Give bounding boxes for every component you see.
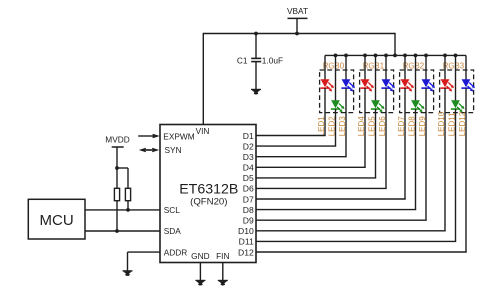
wire LED bus to LED6 anode [385, 55, 387, 80]
pull-up resistor on SDA [114, 188, 119, 200]
svg-text:LED8: LED8 [407, 116, 416, 137]
svg-text:LED7: LED7 [397, 116, 406, 137]
svg-text:SDA: SDA [164, 226, 182, 236]
wire LED4 to pin D4 [256, 166, 366, 168]
wire SCL MCU to IC [85, 209, 160, 211]
svg-text:EXPWM: EXPWM [163, 131, 194, 141]
svg-text:LED11: LED11 [447, 112, 456, 136]
MCU block [28, 199, 85, 239]
wire GND pin down [199, 263, 201, 281]
svg-text:RGB2: RGB2 [403, 61, 424, 70]
svg-text:RGB1: RGB1 [363, 61, 384, 70]
wire left resistor to SDA [116, 201, 118, 231]
svg-text:C1: C1 [237, 56, 248, 66]
pull-up resistor on SCL [125, 188, 130, 200]
svg-text:D5: D5 [243, 173, 254, 183]
power symbol MVDD [105, 134, 129, 147]
svg-text:SYN: SYN [165, 145, 182, 155]
junction LED bus / LED9 wire [424, 54, 428, 58]
LED2 green [331, 100, 345, 112]
wire LED anode bus [325, 54, 466, 56]
LED8 green [411, 100, 425, 112]
wire LED5 cathode down to D5 row [375, 109, 377, 178]
LED7 red [400, 79, 414, 91]
wire LED bus to LED9 anode [425, 55, 427, 80]
wire LED bus to LED12 anode [465, 55, 467, 80]
svg-text:D3: D3 [243, 152, 254, 162]
ground under ADDR [123, 271, 133, 276]
svg-text:D1: D1 [243, 131, 254, 141]
ground under GND pin [195, 280, 205, 285]
wire bus down to LED bus [394, 33, 396, 56]
wire LED bus to LED2 anode [335, 55, 337, 101]
wire LED9 cathode down to D9 row [425, 88, 427, 220]
junction LED bus / LED6 wire [384, 54, 388, 58]
svg-text:RGB0: RGB0 [323, 61, 345, 70]
svg-text:GND: GND [191, 251, 209, 261]
svg-text:D10: D10 [238, 226, 254, 236]
wire LED bus to LED4 anode [364, 55, 366, 80]
wire LED3 to pin D3 [256, 156, 347, 158]
svg-text:D7: D7 [243, 194, 254, 204]
wire LED11 to pin D11 [256, 240, 456, 242]
junction resistor-SCL [126, 208, 130, 212]
svg-text:D8: D8 [243, 205, 254, 215]
LED5 green [371, 100, 385, 112]
LED11 green [451, 100, 465, 112]
svg-text:D4: D4 [243, 163, 254, 173]
ground under FIN pin [218, 280, 228, 285]
wire bus to VIN [202, 33, 204, 125]
wire LED bus to LED5 anode [375, 55, 377, 101]
wire ADDR to ground [128, 252, 161, 271]
svg-text:FIN: FIN [216, 251, 229, 261]
wire LED12 to pin D12 [256, 251, 467, 253]
wire LED10 cathode down to D10 row [444, 88, 446, 231]
RGB LED module RGB3 dashed box [440, 70, 474, 113]
svg-text:D9: D9 [243, 216, 254, 226]
svg-text:MVDD: MVDD [105, 134, 129, 144]
junction LED bus / LED10 wire [443, 54, 447, 58]
wire LED1 to pin D1 [256, 135, 326, 137]
junction C1-bus [254, 32, 258, 36]
RGB LED module RGB0 dashed box [320, 70, 354, 113]
wire LED6 cathode down to D6 row [385, 88, 387, 188]
wire LED4 cathode down to D4 row [364, 88, 366, 167]
svg-text:SCL: SCL [164, 205, 181, 215]
wire LED9 to pin D9 [256, 219, 427, 221]
svg-text:D2: D2 [243, 141, 254, 151]
svg-text:(QFN20): (QFN20) [190, 197, 227, 208]
wire LED7 cathode down to D7 row [404, 88, 406, 199]
wire LED8 cathode down to D8 row [415, 109, 417, 210]
LED3 blue [341, 79, 355, 91]
junction LED bus / LED2 wire [334, 54, 338, 58]
wire bus to C1 [255, 34, 257, 59]
junction VBAT-bus [295, 32, 299, 36]
wire LED bus to LED11 anode [455, 55, 457, 101]
svg-text:VBAT: VBAT [287, 6, 308, 16]
capacitor C1 value 1.0uF [237, 56, 283, 66]
signal arrow into EXPWM [138, 134, 160, 139]
junction feed-LED bus [393, 54, 397, 58]
wire LED3 cathode down to D3 row [345, 88, 347, 157]
power symbol VBAT [287, 6, 308, 18]
wire LED5 to pin D5 [256, 177, 376, 179]
LED9 blue [421, 79, 435, 91]
ground under C1 [251, 89, 261, 94]
svg-text:ADDR: ADDR [164, 247, 188, 257]
wire LED bus to LED7 anode [404, 55, 406, 80]
svg-text:D11: D11 [239, 237, 254, 247]
LED6 blue [381, 79, 395, 91]
wire FIN pin down [222, 263, 224, 281]
wire MVDD down [116, 147, 118, 188]
wire SDA MCU to IC [85, 230, 160, 232]
svg-text:MCU: MCU [40, 212, 74, 229]
wire LED6 to pin D6 [256, 187, 387, 189]
IC U1 ET6312B body [160, 125, 256, 263]
wire LED1 cathode down to D1 row [324, 88, 326, 135]
bidirectional arrow SYN [139, 148, 159, 153]
LED1 red [320, 79, 334, 91]
junction LED bus / LED11 wire [454, 54, 458, 58]
wire branch to right resistor [117, 168, 128, 188]
wire LED bus to LED3 anode [345, 55, 347, 80]
wire C1 to ground [255, 62, 257, 90]
RGB LED module RGB1 dashed box [360, 70, 394, 113]
wire LED bus to LED1 anode [324, 55, 326, 80]
svg-text:LED3: LED3 [338, 116, 347, 137]
wire LED8 to pin D8 [256, 209, 416, 211]
junction resistor-SDA [115, 229, 119, 233]
wire right resistor to SCL [127, 201, 129, 210]
wire LED12 cathode down to D12 row [465, 88, 467, 252]
junction LED bus / LED5 wire [374, 54, 378, 58]
wire LED2 to pin D2 [256, 145, 336, 147]
svg-text:ET6312B: ET6312B [179, 181, 238, 197]
LED4 red [360, 79, 374, 91]
svg-text:1.0uF: 1.0uF [262, 56, 283, 66]
junction LED bus / LED4 wire [363, 54, 367, 58]
svg-text:LED6: LED6 [378, 116, 387, 137]
LED10 red [440, 79, 454, 91]
svg-text:LED5: LED5 [367, 116, 376, 137]
RGB LED module RGB2 dashed box [400, 70, 434, 113]
svg-text:RGB3: RGB3 [443, 61, 464, 70]
wire LED bus to LED10 anode [444, 55, 446, 80]
svg-text:LED9: LED9 [418, 116, 427, 137]
junction MVDD split [115, 166, 119, 170]
wire LED bus to LED8 anode [415, 55, 417, 101]
svg-text:D12: D12 [238, 247, 254, 257]
junction LED bus / LED8 wire [414, 54, 418, 58]
svg-text:LED2: LED2 [327, 116, 336, 137]
svg-text:LED10: LED10 [437, 111, 446, 136]
wire main VBAT bus [203, 33, 395, 35]
svg-text:D6: D6 [243, 184, 254, 194]
wire LED2 cathode down to D2 row [335, 109, 337, 146]
wire LED11 cathode down to D11 row [455, 109, 457, 241]
junction LED bus / LED7 wire [403, 54, 407, 58]
svg-text:VIN: VIN [196, 126, 210, 136]
svg-text:LED1: LED1 [317, 116, 326, 137]
wire LED10 to pin D10 [256, 230, 446, 232]
svg-text:LED12: LED12 [458, 111, 467, 136]
wire LED7 to pin D7 [256, 198, 406, 200]
junction LED bus / LED3 wire [344, 54, 348, 58]
svg-text:LED4: LED4 [357, 116, 366, 137]
LED12 blue [461, 79, 475, 91]
wire VBAT to bus [296, 18, 298, 33]
